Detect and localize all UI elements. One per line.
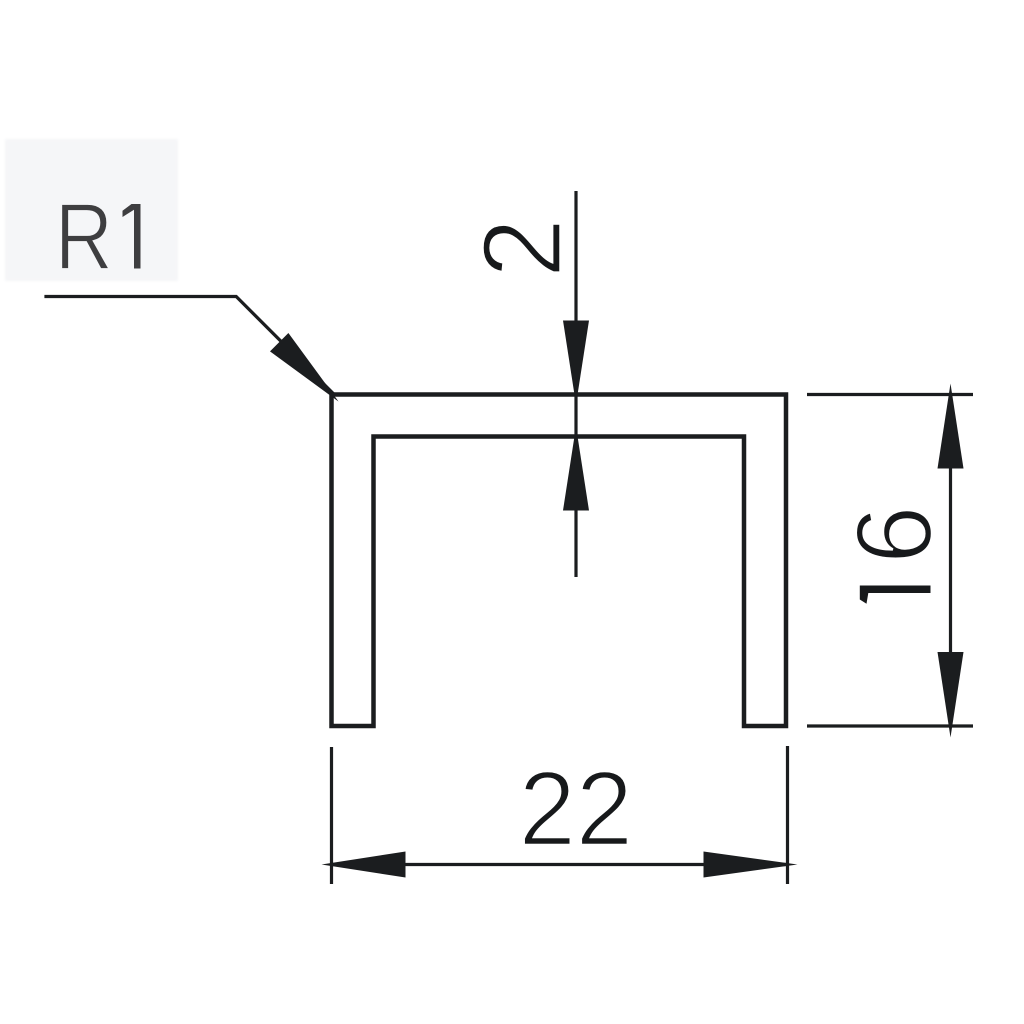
dimension 16: top extension line [807, 393, 973, 396]
R1 label background box [5, 139, 178, 281]
dimension 2: upper arrow (points down to outer top edge) [563, 321, 589, 405]
leader arrowhead at profile corner [270, 333, 339, 402]
U-channel profile outline [332, 395, 787, 727]
dimension 16: top arrow [938, 384, 964, 469]
dimension 22: left extension line [330, 747, 333, 884]
svg-text:R: R [55, 183, 113, 290]
dimension 2: vertical dimension line [574, 191, 577, 577]
dimension 22: right extension line [786, 746, 789, 884]
dimension 22: left arrow [322, 852, 406, 878]
dimension 22: horizontal dimension line [332, 863, 788, 866]
dimension 16: bottom extension line [807, 724, 973, 727]
radius label R1 [55, 183, 141, 290]
dimension 16: vertical dimension line [949, 395, 952, 727]
leader line from R1 to top-left corner [44, 297, 334, 395]
dimension 2: lower arrow (points up to inner top edge) [563, 427, 589, 511]
dimension 16: bottom arrow [938, 652, 964, 738]
svg-text:22: 22 [519, 750, 633, 869]
svg-text:2: 2 [461, 218, 585, 278]
dimension 22: right arrow [704, 852, 798, 878]
svg-text:6: 6 [833, 505, 955, 564]
dimension 16: value text [833, 505, 955, 603]
